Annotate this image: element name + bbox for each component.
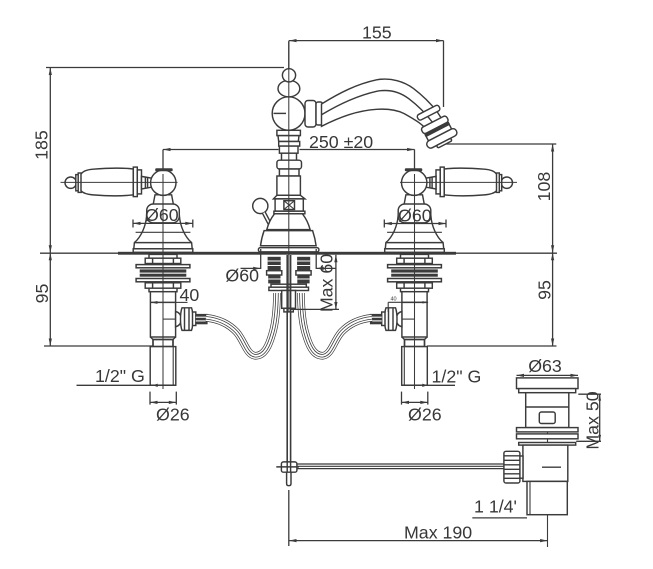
column taper [278, 136, 299, 142]
svg-text:1 1/4': 1 1/4' [474, 497, 517, 517]
overflow slot [539, 412, 555, 424]
knurled rod coupling [504, 451, 520, 483]
center shank [282, 291, 296, 309]
left O26 dim [149, 392, 151, 405]
aerator [413, 103, 460, 152]
column ring [279, 142, 300, 147]
deck thick line [118, 252, 456, 255]
drain plate 3 [519, 443, 576, 446]
drain flange lip [519, 389, 576, 393]
dimension 108/95 right vertical line [552, 144, 554, 346]
dimension 250 line right segment [300, 149, 415, 151]
under-deck center assembly [206, 42, 504, 486]
svg-text:155: 155 [362, 23, 392, 43]
lower dimensions [77, 220, 602, 547]
column cylinder [277, 176, 301, 195]
deck thin line [40, 252, 557, 254]
mounting plate strip 1 [271, 284, 306, 287]
finial big ball [278, 80, 300, 97]
right handle extension [414, 150, 416, 175]
right 1/2G leader [402, 384, 455, 386]
right side valve (mirrored) [370, 167, 517, 389]
center column axis extension [288, 41, 290, 70]
knurled rod coupling collar [515, 456, 523, 478]
right stud thread [297, 257, 310, 271]
center column axis centerline [288, 42, 290, 312]
tiny 40 dim right valve [388, 301, 428, 303]
tailpiece [527, 481, 567, 514]
svg-text:Ø60: Ø60 [145, 205, 179, 225]
spout tube [322, 79, 442, 132]
svg-text:Max 50: Max 50 [583, 391, 603, 449]
pop-up rod (vertical) [286, 255, 288, 462]
svg-text:Ø26: Ø26 [408, 405, 442, 425]
left hose [206, 293, 277, 356]
right O26 dim [401, 392, 403, 405]
center base band [274, 211, 305, 214]
center base dome 2 [261, 231, 317, 246]
pop-up rod junction block [281, 462, 297, 472]
finial small ball [282, 69, 295, 82]
column narrow [282, 153, 297, 160]
svg-text:95: 95 [535, 280, 555, 300]
column ring below hub [277, 130, 301, 135]
right stud washer [296, 271, 311, 275]
left 95 bottom extension line [44, 345, 154, 347]
Max 190 dim [288, 490, 290, 546]
dimension 185 top extension line [46, 67, 284, 69]
svg-text:Ø63: Ø63 [528, 356, 562, 376]
dimension 155 top line [289, 40, 444, 42]
pop-up lever stem [264, 213, 271, 225]
right escutcheon dia dim [383, 220, 385, 228]
drain body lower [523, 445, 568, 481]
dimension 185/95 left vertical line [49, 68, 51, 347]
svg-text:1/2" G: 1/2" G [95, 366, 145, 386]
1 1/4 leader [472, 517, 527, 519]
svg-text:Ø60: Ø60 [398, 206, 432, 226]
right stud thread lower [297, 275, 309, 283]
shank tip [284, 308, 293, 312]
left 1/2G leader [77, 384, 177, 386]
pop-up lever knob [253, 198, 268, 213]
svg-text:108: 108 [534, 172, 554, 202]
column narrow 2 [279, 169, 299, 176]
center base dome 1 [267, 214, 310, 230]
svg-text:95: 95 [32, 284, 52, 304]
svg-text:Max 60: Max 60 [317, 254, 337, 312]
svg-text:250 ±20: 250 ±20 [309, 132, 373, 152]
left handle extension [162, 150, 164, 175]
column bulge [277, 160, 302, 169]
valve block [275, 199, 303, 211]
drain body upper [526, 393, 569, 428]
drain plate 2 [517, 434, 579, 439]
left stud washer [267, 271, 282, 275]
drain assembly [504, 378, 578, 547]
Max 50 dim [578, 393, 601, 395]
left side valve [61, 167, 208, 389]
central column [253, 69, 460, 252]
spout collar ring 1 [305, 101, 316, 128]
O63 dim [517, 374, 579, 376]
svg-text:40: 40 [391, 297, 397, 303]
drain plate 1 [517, 428, 579, 432]
Max 60 dim [335, 255, 337, 310]
svg-text:Ø60: Ø60 [225, 266, 259, 286]
svg-text:Max 190: Max 190 [404, 523, 472, 543]
svg-text:Ø26: Ø26 [156, 405, 190, 425]
mounting plate strip 2 [269, 287, 309, 290]
right hose [301, 293, 372, 356]
X-box symbol [284, 201, 295, 210]
rod lower tip [287, 472, 291, 486]
spout collar ring 2 [316, 102, 323, 125]
horizontal drain rod [297, 463, 504, 465]
center base diameter dim [260, 249, 262, 269]
right 95 bottom extension line [427, 345, 557, 347]
center base ring [258, 248, 319, 252]
left stud thread lower [268, 275, 280, 283]
svg-text:1/2" G: 1/2" G [432, 367, 482, 387]
spout hub sphere [272, 97, 305, 130]
dimension 250 line left segment [163, 149, 279, 151]
drain centerline [547, 381, 549, 547]
svg-text:185: 185 [32, 130, 52, 160]
left escutcheon dia dim [132, 220, 134, 228]
left stud thread [268, 257, 281, 271]
spout tube inner line [322, 91, 434, 123]
svg-text:40: 40 [180, 285, 200, 305]
dimension 108 top extension line from aerator [444, 143, 556, 145]
dimension 155 right extension [443, 41, 445, 107]
drain flange [517, 378, 579, 389]
column ring [279, 146, 298, 153]
column flare [273, 195, 305, 199]
40 dim left valve [176, 301, 188, 303]
